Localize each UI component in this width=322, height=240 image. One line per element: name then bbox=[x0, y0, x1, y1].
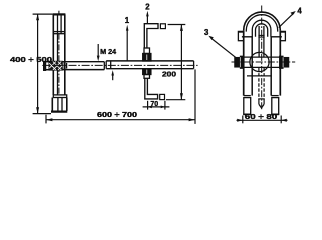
boss bottom chord bbox=[247, 75, 272, 77]
dimension 200 arrow up bbox=[180, 25, 183, 31]
dimension 600÷700 left extension bbox=[45, 115, 47, 124]
lower leg left bbox=[244, 98, 251, 115]
bar collar after clamp bbox=[63, 62, 65, 70]
clamp hatched block bbox=[49, 61, 63, 70]
dimension 70 left extension bbox=[147, 101, 149, 110]
arch outer arc bbox=[244, 12, 281, 30]
callout 3 leader bbox=[211, 38, 239, 60]
callout 1 leader bbox=[126, 30, 128, 62]
bar centerline bbox=[42, 64, 197, 66]
dimension 400÷500 arrow down bbox=[36, 107, 39, 113]
svg-text:60 ÷ 80: 60 ÷ 80 bbox=[245, 112, 277, 121]
C-bracket top pad bbox=[160, 24, 165, 29]
post inner wall left bbox=[57, 14, 59, 95]
bar right end bbox=[193, 61, 195, 69]
bar segment C bottom bbox=[106, 68, 193, 70]
C-bracket lower step bbox=[144, 75, 150, 79]
dimension 60÷80 left extension bbox=[242, 116, 244, 124]
dimension 400÷500 line bbox=[37, 14, 39, 114]
M24 up arrow bbox=[112, 74, 114, 80]
dimension 600÷700 right extension bbox=[194, 69, 196, 124]
post joint band bbox=[53, 32, 65, 34]
bolt axis centerline bbox=[232, 61, 296, 63]
left tab bbox=[238, 31, 243, 40]
dimension 70 arrow left bbox=[148, 106, 152, 109]
bar left end cap bbox=[43, 61, 45, 70]
bar segment B top bbox=[62, 61, 104, 63]
arch bore arc inner bbox=[256, 24, 268, 37]
dimension 70 right extension bbox=[164, 101, 166, 110]
post centerline tick bbox=[58, 11, 60, 14]
bar segment C top bbox=[106, 60, 193, 62]
left leg inner bbox=[251, 37, 253, 96]
arch inner arc bbox=[246, 15, 277, 32]
post outer wall right bbox=[64, 14, 66, 95]
post outer wall left bbox=[52, 14, 54, 95]
left shoulder bbox=[242, 36, 253, 38]
right shoulder bbox=[271, 36, 282, 38]
dimension 400÷500 bottom extension line bbox=[33, 113, 51, 115]
M24 leader arrow bbox=[97, 44, 99, 57]
right tab bbox=[280, 31, 285, 40]
dimension 200 arrow down bbox=[180, 93, 183, 99]
rod tick bbox=[258, 34, 264, 36]
C-bracket upper step bbox=[144, 48, 150, 54]
bolt washer left bbox=[241, 56, 244, 68]
dimension 600÷700 arrow left bbox=[46, 118, 52, 121]
dimension 60÷80 right extension bbox=[280, 116, 282, 124]
bolt washer right bbox=[280, 56, 283, 68]
bar left segment end bbox=[103, 62, 105, 70]
bar segment B bottom bbox=[62, 69, 104, 71]
right leg inner bbox=[270, 37, 272, 96]
dimension 600÷700 line bbox=[46, 119, 195, 121]
legs joint line bbox=[244, 95, 251, 97]
dimension 600÷700 arrow right bbox=[189, 118, 195, 121]
C-bracket lower spine bbox=[145, 78, 158, 99]
bolt head left bbox=[235, 58, 241, 67]
rod in arch left line bbox=[258, 26, 260, 57]
C-bracket top hook bbox=[144, 24, 158, 48]
post inner wall right bbox=[60, 14, 62, 33]
dimension 70 arrow right bbox=[161, 106, 165, 109]
rod chevron tip bbox=[259, 104, 264, 108]
svg-text:2: 2 bbox=[145, 2, 150, 11]
rod hidden dashes bbox=[258, 68, 260, 99]
C-bracket boss upper bbox=[143, 54, 151, 62]
dimension 60÷80 arrow right bbox=[281, 119, 287, 122]
bolt nut right bbox=[283, 58, 289, 67]
bar segment A bbox=[46, 61, 49, 63]
post bottom cap bbox=[51, 110, 67, 112]
dimension 60÷80 line bbox=[237, 119, 288, 121]
coupling step bbox=[105, 61, 107, 69]
dimension 200 line bbox=[180, 25, 182, 100]
dimension 200 top extension bbox=[168, 24, 186, 26]
svg-text:1: 1 bbox=[125, 16, 130, 25]
right leg outer bbox=[279, 30, 281, 95]
callout 2 leader bbox=[146, 16, 148, 24]
bolt band top bbox=[244, 56, 280, 58]
post top cap bbox=[53, 13, 66, 15]
bolt band bottom bbox=[244, 66, 280, 68]
C-bracket boss lower bbox=[143, 69, 151, 75]
right view centerline bbox=[261, 6, 263, 112]
svg-text:400 ÷ 500: 400 ÷ 500 bbox=[10, 55, 52, 64]
svg-text:M 24: M 24 bbox=[100, 47, 116, 56]
post lower joint band bbox=[53, 95, 66, 98]
rod tick 2 bbox=[258, 98, 264, 100]
lower leg right bbox=[272, 98, 279, 115]
dimension 400÷500 arrow up bbox=[36, 14, 39, 20]
svg-text:3: 3 bbox=[204, 28, 209, 37]
arch bore arc outer bbox=[252, 20, 271, 37]
pivot boss circle bbox=[250, 52, 269, 71]
rod in arch right line bbox=[263, 26, 265, 57]
lower leg caps bbox=[243, 113, 251, 115]
dimension 400÷500 top extension line bbox=[33, 13, 53, 15]
dimension 200 bottom extension bbox=[166, 99, 185, 101]
dimension 70 line bbox=[143, 106, 170, 108]
post bottom section bbox=[51, 98, 53, 111]
svg-text:70: 70 bbox=[150, 99, 158, 108]
svg-text:600 ÷ 700: 600 ÷ 700 bbox=[97, 110, 137, 119]
dimension 60÷80 arrow left bbox=[237, 119, 243, 122]
left leg outer bbox=[243, 30, 245, 95]
callout 4 leader bbox=[279, 13, 294, 28]
C-bracket bottom pad bbox=[160, 94, 165, 99]
svg-text:4: 4 bbox=[297, 6, 302, 15]
svg-text:200: 200 bbox=[162, 70, 176, 79]
